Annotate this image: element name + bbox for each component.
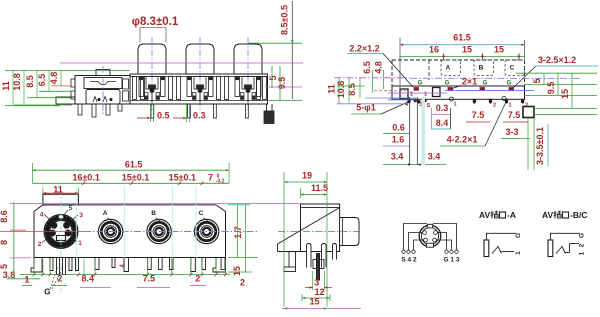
svg-text:6.5: 6.5 — [362, 61, 372, 74]
svg-text:-B/C: -B/C — [570, 210, 587, 220]
svg-text:8.5±0.5: 8.5±0.5 — [280, 5, 290, 35]
svg-text:5: 5 — [0, 264, 9, 269]
svg-text:3.4: 3.4 — [391, 152, 404, 162]
svg-text:G: G — [44, 288, 50, 297]
svg-text:61.5: 61.5 — [453, 33, 471, 43]
svg-text:6.5: 6.5 — [37, 74, 47, 87]
svg-text:11: 11 — [1, 81, 11, 91]
svg-text:4.8: 4.8 — [49, 72, 59, 85]
svg-text:16±0.1: 16±0.1 — [72, 172, 99, 182]
svg-text:2: 2 — [410, 92, 413, 98]
svg-text:15: 15 — [494, 45, 504, 55]
svg-text:0.3: 0.3 — [436, 103, 449, 113]
svg-text:0.3: 0.3 — [193, 111, 206, 121]
svg-text:15: 15 — [232, 266, 242, 276]
svg-text:5: 5 — [532, 78, 542, 83]
svg-text:1.6: 1.6 — [392, 135, 405, 145]
svg-text:φ8.3±0.1: φ8.3±0.1 — [132, 16, 179, 28]
svg-text:G: G — [507, 81, 512, 87]
svg-text:0.5: 0.5 — [157, 111, 170, 121]
svg-text:2: 2 — [493, 103, 496, 109]
svg-text:AV: AV — [479, 210, 491, 220]
svg-text:2: 2 — [240, 278, 245, 288]
svg-text:8.4: 8.4 — [81, 274, 94, 284]
svg-text:S: S — [427, 103, 431, 109]
svg-text:10.8: 10.8 — [12, 73, 22, 91]
svg-text:2: 2 — [57, 274, 62, 284]
svg-text:G: G — [418, 81, 423, 87]
svg-text:3.4: 3.4 — [428, 152, 441, 162]
svg-text:G: G — [515, 233, 522, 238]
svg-text:10.8: 10.8 — [336, 81, 346, 99]
svg-text:A: A — [446, 65, 451, 72]
svg-text:-A: -A — [507, 210, 516, 220]
svg-text:1: 1 — [78, 240, 82, 247]
svg-text:9.5: 9.5 — [546, 82, 556, 95]
svg-text:2: 2 — [525, 103, 528, 109]
svg-text:8.4: 8.4 — [436, 118, 449, 128]
svg-text:B: B — [479, 65, 484, 72]
svg-text:15±0.1: 15±0.1 — [169, 172, 196, 182]
svg-text:8.5: 8.5 — [25, 75, 35, 88]
svg-text:1: 1 — [24, 275, 29, 285]
svg-text:B: B — [151, 210, 156, 217]
svg-text:S 4 2: S 4 2 — [401, 257, 417, 264]
svg-text:3-3.5±0.1: 3-3.5±0.1 — [535, 127, 545, 165]
svg-text:C: C — [510, 65, 515, 72]
svg-text:1: 1 — [508, 103, 511, 109]
svg-text:AV: AV — [542, 210, 554, 220]
svg-text:3-2.5×1.2: 3-2.5×1.2 — [538, 55, 576, 65]
svg-text:11: 11 — [327, 84, 337, 94]
svg-text:1: 1 — [453, 102, 456, 108]
svg-text:15±0.1: 15±0.1 — [122, 172, 149, 182]
svg-text:3: 3 — [314, 278, 319, 288]
svg-text:16: 16 — [429, 45, 439, 55]
svg-text:4: 4 — [40, 212, 44, 219]
svg-text:2: 2 — [38, 241, 42, 248]
svg-text:A: A — [103, 210, 108, 217]
svg-text:1: 1 — [578, 251, 585, 255]
svg-text:3: 3 — [79, 212, 83, 219]
svg-text:7.5: 7.5 — [508, 110, 521, 120]
svg-text:7.5: 7.5 — [472, 110, 485, 120]
svg-text:4.8: 4.8 — [374, 61, 384, 74]
svg-text:G: G — [445, 81, 450, 87]
svg-text:3-3: 3-3 — [505, 127, 518, 137]
svg-text:8.6: 8.6 — [0, 210, 9, 223]
svg-text:7: 7 — [208, 172, 213, 182]
svg-text:12: 12 — [314, 287, 324, 297]
svg-text:15: 15 — [462, 45, 472, 55]
svg-text:7.5: 7.5 — [143, 274, 156, 284]
svg-text:2: 2 — [578, 243, 585, 247]
svg-text:2: 2 — [195, 274, 200, 284]
svg-text:G: G — [483, 81, 488, 87]
svg-text:0.6: 0.6 — [392, 123, 405, 133]
svg-text:4-2.2×1: 4-2.2×1 — [447, 135, 478, 145]
svg-text:2×1: 2×1 — [462, 77, 477, 87]
svg-text:G 1 3: G 1 3 — [444, 257, 460, 264]
svg-text:8: 8 — [0, 240, 9, 245]
svg-text:8.5: 8.5 — [347, 83, 357, 96]
svg-text:1: 1 — [424, 92, 427, 98]
svg-text:11.5: 11.5 — [311, 183, 328, 193]
svg-text:2.2×1.2: 2.2×1.2 — [349, 44, 379, 54]
svg-text:1: 1 — [515, 251, 522, 255]
svg-text:1.7: 1.7 — [233, 226, 243, 239]
svg-text:15: 15 — [560, 89, 570, 99]
svg-text:G: G — [578, 233, 585, 238]
svg-text:5: 5 — [69, 205, 73, 212]
svg-text:15: 15 — [309, 297, 319, 307]
svg-text:19: 19 — [302, 171, 312, 181]
svg-text:C: C — [199, 210, 204, 217]
svg-text:61.5: 61.5 — [125, 160, 143, 170]
